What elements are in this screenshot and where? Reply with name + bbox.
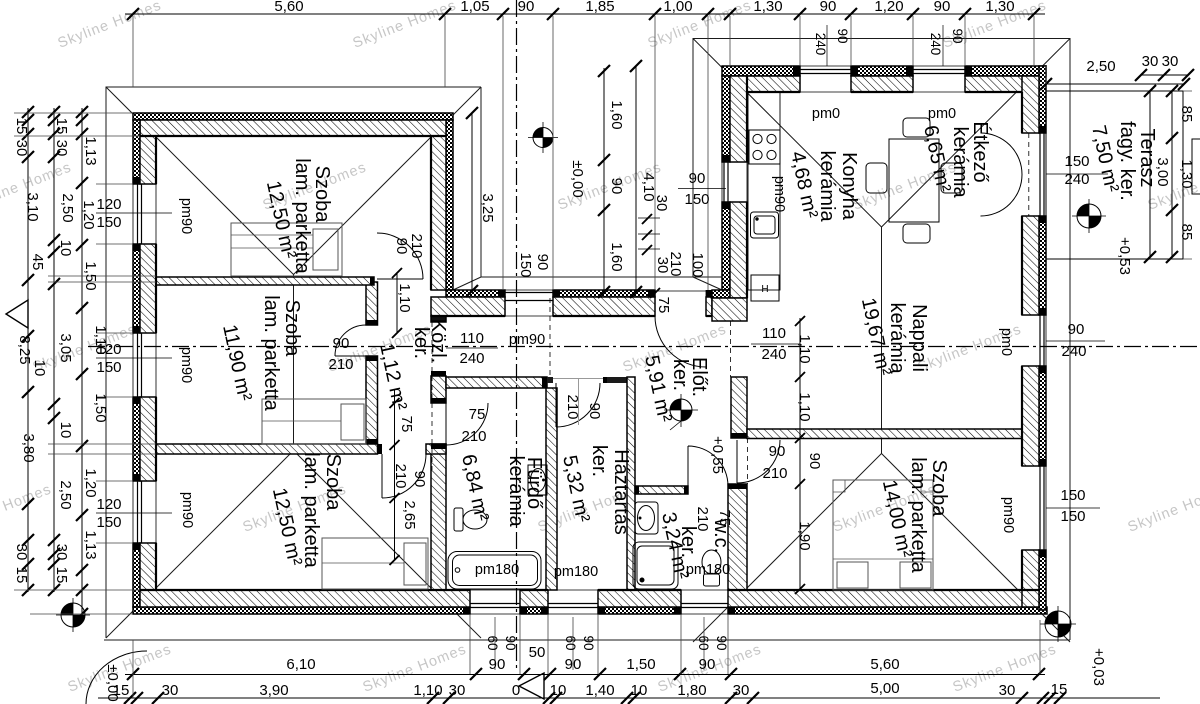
section triangle bottom	[519, 673, 544, 699]
hip right NW	[693, 39, 882, 228]
bed room1	[231, 223, 342, 276]
svg-text:1,10: 1,10	[396, 283, 413, 312]
east window pm0 Nappali	[1022, 315, 1046, 366]
opening 110 nappali jambs	[712, 321, 747, 377]
svg-text:3,25: 3,25	[479, 193, 496, 222]
top ticks	[127, 8, 1040, 20]
svg-text:Étkező: Étkező	[969, 121, 992, 182]
svg-text:1,05: 1,05	[460, 0, 489, 15]
top window pm0 #2	[913, 66, 965, 92]
svg-text:120: 120	[96, 196, 121, 213]
svg-text:110: 110	[762, 325, 786, 342]
Nappali west wall upper	[731, 377, 747, 438]
svg-text:90: 90	[699, 656, 716, 673]
left block insulation west segs	[133, 120, 140, 184]
window W1 left wall	[133, 184, 156, 244]
survey marker courtyard	[528, 122, 558, 153]
hip left NE	[294, 87, 482, 275]
svg-text:Szoba: Szoba	[928, 460, 950, 518]
svg-text:15: 15	[113, 682, 130, 699]
svg-text:150: 150	[96, 359, 121, 376]
svg-text:90: 90	[565, 656, 582, 673]
door Furdo arc	[446, 403, 488, 445]
svg-text:pm0: pm0	[928, 106, 956, 122]
corridor 110 240 pair line	[446, 347, 498, 349]
right pair lines	[1046, 174, 1108, 508]
entry wall insulation segs	[446, 290, 505, 297]
courtyard small lines	[638, 218, 660, 249]
hip right SE	[882, 454, 1071, 643]
bottom rotated pairs	[485, 635, 729, 650]
kitchen counter	[748, 92, 780, 290]
svg-text:w.c.: w.c.	[710, 518, 732, 553]
svg-text:30: 30	[653, 195, 670, 212]
svg-text:90: 90	[608, 178, 625, 195]
courtyard window right block west wall	[722, 162, 747, 202]
svg-text:Háztartás: Háztartás	[610, 449, 632, 535]
door Nappali arc	[737, 440, 780, 483]
svg-text:8,25: 8,25	[16, 335, 33, 364]
svg-text:50: 50	[529, 644, 546, 661]
right vertical dim 85 130 85	[1171, 91, 1173, 257]
svg-text:1,10: 1,10	[796, 334, 813, 363]
svg-text:15: 15	[53, 567, 70, 584]
top right 2,50 line	[1046, 83, 1184, 85]
dashed entry window jamb	[549, 298, 551, 376]
shower WC	[633, 542, 678, 589]
svg-text:30: 30	[1162, 53, 1179, 70]
svg-text:1,85: 1,85	[585, 0, 614, 15]
svg-text:pm90: pm90	[509, 332, 545, 348]
washbasin WC	[635, 502, 658, 534]
svg-text:90: 90	[835, 28, 850, 43]
Nappali west wall lower	[728, 484, 747, 590]
bottom row1 line	[125, 674, 1045, 676]
right pair labels	[1060, 153, 1089, 525]
bottom insulation segs	[133, 607, 470, 614]
entry door arc	[655, 316, 706, 367]
dining table	[889, 139, 939, 222]
svg-text:30: 30	[733, 682, 750, 699]
svg-text:210: 210	[328, 356, 353, 373]
svg-text:15: 15	[1051, 681, 1068, 698]
top window pm0 #1	[800, 66, 851, 92]
svg-text:120: 120	[96, 341, 121, 358]
svg-text:1,10: 1,10	[413, 682, 442, 699]
svg-text:30: 30	[53, 140, 70, 157]
svg-text:150: 150	[517, 252, 534, 277]
svg-text:pm180: pm180	[475, 562, 519, 578]
svg-text:1,20: 1,20	[82, 468, 99, 497]
svg-text:6,10: 6,10	[286, 656, 315, 673]
svg-text:75: 75	[398, 416, 415, 433]
top dim line	[125, 13, 1045, 15]
svg-text:15: 15	[53, 118, 70, 135]
chair top	[903, 118, 930, 137]
svg-text:90: 90	[586, 403, 603, 420]
window W2 left wall	[133, 333, 156, 397]
chair right	[941, 163, 962, 193]
top rotated window labels	[813, 28, 965, 55]
main horizontal axis	[88, 346, 1200, 348]
svg-text:+0,03: +0,03	[1090, 648, 1107, 686]
svg-text:3,10: 3,10	[24, 192, 41, 221]
svg-text:Nappali: Nappali	[908, 304, 930, 372]
elot pair leader	[670, 421, 681, 430]
corridor right wall seg top	[431, 316, 446, 322]
room1/2 divider wall	[156, 277, 374, 285]
svg-text:10: 10	[631, 682, 648, 699]
svg-text:5,60: 5,60	[274, 0, 303, 15]
svg-text:150: 150	[1060, 487, 1085, 504]
washbasin Furdo	[528, 465, 547, 495]
right block insulation east segs	[1039, 66, 1046, 133]
room2/3 divider wall	[156, 444, 378, 454]
courtyard dim 4,10	[635, 66, 637, 292]
svg-text:1,30: 1,30	[985, 0, 1014, 15]
Furdo east / Haztartas west wall	[546, 388, 557, 590]
left window pair lines	[96, 213, 172, 513]
OPENINGS	[133, 66, 1183, 614]
right block insulation top segs	[722, 66, 800, 76]
svg-text:2,50: 2,50	[59, 193, 76, 222]
svg-text:45: 45	[29, 254, 46, 271]
svg-text:90: 90	[769, 443, 786, 460]
hip left NW	[106, 87, 294, 275]
ridge left	[293, 275, 295, 451]
svg-text:90: 90	[411, 471, 428, 488]
svg-text:1,30: 1,30	[753, 0, 782, 15]
svg-text:+0,55: +0,55	[709, 436, 726, 474]
svg-text:1,80: 1,80	[677, 682, 706, 699]
door room3 arc	[382, 454, 426, 498]
svg-text:1,00: 1,00	[663, 0, 692, 15]
left block insulation top	[133, 113, 453, 120]
bathtub	[448, 552, 541, 590]
top right labels	[1086, 53, 1178, 75]
door Haztartas arc	[556, 383, 600, 427]
survey marker bottom left	[56, 598, 90, 632]
svg-text:90: 90	[950, 28, 965, 43]
svg-text:2,50: 2,50	[57, 480, 74, 509]
svg-text:1,10: 1,10	[796, 392, 813, 421]
svg-text:Terasz: Terasz	[1136, 129, 1158, 188]
nappali west dim col	[799, 318, 801, 589]
svg-text:1,13: 1,13	[82, 530, 99, 559]
ridge right	[881, 227, 883, 454]
bottom masonry segs	[140, 590, 470, 607]
svg-text:30: 30	[13, 140, 30, 157]
svg-text:90: 90	[1068, 321, 1085, 338]
chair bottom	[903, 224, 930, 243]
svg-text:90: 90	[393, 238, 410, 255]
svg-text:1,60: 1,60	[608, 100, 625, 129]
eaves right block	[693, 39, 1070, 641]
svg-text:2,65: 2,65	[401, 500, 418, 529]
left ext lines	[14, 113, 156, 614]
svg-text:90: 90	[534, 254, 551, 271]
window bottom Furdo	[470, 590, 520, 614]
svg-text:240: 240	[1061, 343, 1086, 360]
svg-text:30: 30	[999, 682, 1016, 699]
svg-text:150: 150	[684, 191, 709, 208]
svg-text:1,20: 1,20	[80, 200, 97, 229]
bottom row2 labels	[113, 680, 1068, 699]
jamb caps	[366, 320, 747, 494]
svg-text:2,50: 2,50	[1086, 58, 1115, 75]
corridor left wall seg top	[366, 282, 378, 325]
svg-text:1,50: 1,50	[626, 656, 655, 673]
eaves bottom continuous	[104, 639, 1070, 641]
dashed projection corridor	[431, 322, 433, 470]
toilet WC	[702, 550, 721, 586]
east window pm90 Szoba	[1022, 466, 1046, 550]
courtyard corner diagonal left	[453, 277, 481, 290]
svg-text:110: 110	[460, 330, 484, 347]
svg-text:pm0: pm0	[812, 106, 840, 122]
right block masonry west segs	[730, 76, 747, 162]
svg-text:75: 75	[655, 297, 672, 314]
svg-text:90: 90	[581, 635, 596, 650]
svg-text:10: 10	[550, 682, 567, 699]
top row labels	[274, 0, 1014, 15]
courtyard dim 3,25	[471, 112, 473, 291]
svg-text:ker.: ker.	[669, 359, 691, 391]
courtyard corner diagonal right	[693, 277, 722, 290]
dashed projection nappali door	[747, 438, 749, 484]
stove	[749, 130, 780, 164]
left block masonry east	[431, 136, 446, 290]
eaves left block right side	[481, 87, 722, 277]
terrace ext lines	[1046, 66, 1192, 259]
svg-text:+0,53: +0,53	[1116, 237, 1133, 275]
courtyard 90 150 pair line	[678, 188, 726, 190]
svg-text:pm90: pm90	[178, 198, 194, 234]
svg-text:90: 90	[820, 0, 837, 15]
dim line furdo door col	[394, 390, 396, 560]
top extension lines	[133, 16, 1034, 290]
main vertical axis	[516, 0, 518, 670]
svg-text:10: 10	[57, 240, 74, 257]
divider east seg	[426, 444, 446, 454]
svg-text:kerámia: kerámia	[505, 455, 527, 527]
left col2	[53, 108, 55, 592]
left block masonry west segs	[140, 136, 156, 184]
corridor left wall seg bottom	[366, 356, 378, 444]
svg-text:1,50: 1,50	[82, 261, 99, 290]
svg-text:ker.: ker.	[588, 445, 610, 477]
svg-text:240: 240	[1064, 171, 1089, 188]
bottom row1 labels	[286, 644, 899, 673]
svg-text:5,00: 5,00	[870, 680, 899, 697]
kitchen sink	[751, 212, 779, 238]
svg-text:10: 10	[57, 422, 74, 439]
svg-text:120: 120	[96, 496, 121, 513]
WC north wall	[635, 486, 688, 494]
terrace outline	[1046, 91, 1183, 259]
FIXTURES	[6, 92, 1106, 704]
eaves outline left block	[106, 87, 481, 638]
svg-text:60: 60	[485, 635, 500, 650]
courtyard dim col 1,60 90 1,60	[603, 68, 605, 292]
left col3	[81, 108, 83, 614]
svg-text:lam. parketta: lam. parketta	[260, 295, 282, 411]
svg-text:15: 15	[13, 118, 30, 135]
fridge H	[751, 275, 779, 301]
Haztartas north wall (thin)	[603, 377, 627, 383]
svg-text:150: 150	[1060, 508, 1085, 525]
left col1	[27, 108, 29, 592]
ROOF	[104, 39, 1070, 643]
svg-text:5,60: 5,60	[870, 656, 899, 673]
svg-text:210: 210	[667, 251, 684, 276]
svg-text:150: 150	[96, 214, 121, 231]
entry wall masonry segs	[431, 297, 505, 316]
window W3 left wall	[133, 481, 156, 543]
survey marker Elot	[664, 394, 698, 427]
top window sublines	[827, 25, 943, 66]
svg-text:30: 30	[53, 544, 70, 561]
hip right SW	[693, 454, 882, 643]
svg-text:15: 15	[13, 567, 30, 584]
top right 30 30 line	[1141, 74, 1188, 76]
svg-text:60: 60	[563, 635, 578, 650]
svg-text:210: 210	[461, 428, 486, 445]
survey marker terrace	[1072, 199, 1106, 233]
svg-text:30: 30	[13, 544, 30, 561]
right vertical dim 3,00	[1149, 91, 1151, 257]
svg-text:1,30: 1,30	[1178, 159, 1195, 188]
hip left SE	[294, 451, 482, 639]
WALLS	[133, 66, 1047, 614]
big arc bottom-left corner	[86, 651, 147, 704]
toilet Furdo	[454, 508, 487, 531]
svg-text:1,13: 1,13	[82, 136, 99, 165]
right block masonry east segs	[1022, 76, 1039, 133]
bottom ext lines	[133, 614, 1040, 698]
dashed french door	[1028, 133, 1030, 216]
svg-text:75: 75	[469, 406, 486, 423]
svg-text:30: 30	[162, 682, 179, 699]
right window bracket	[1192, 139, 1200, 194]
svg-text:ker.: ker.	[410, 327, 432, 359]
double bed Szoba right	[833, 480, 933, 590]
left block masonry top	[140, 120, 446, 136]
corridor right wall seg mid	[431, 376, 446, 403]
door room2 arc	[335, 325, 366, 356]
door WC arc	[688, 446, 728, 486]
right block insulation west segs	[722, 76, 730, 162]
svg-text:Szoba: Szoba	[322, 454, 344, 512]
svg-text:240: 240	[813, 33, 828, 56]
svg-text:210: 210	[408, 233, 425, 258]
svg-text:90: 90	[489, 656, 506, 673]
nappali 110 240 pair line	[751, 343, 800, 345]
bed room2	[262, 399, 366, 444]
svg-text:90: 90	[934, 0, 951, 15]
svg-text:±0,00: ±0,00	[569, 160, 586, 197]
svg-text:0: 0	[512, 682, 520, 699]
window jamb blocks	[133, 66, 1046, 614]
entry wall window	[505, 290, 553, 316]
Furdo north wall	[446, 377, 547, 388]
section triangle left	[6, 300, 28, 328]
svg-text:H: H	[761, 284, 768, 295]
svg-text:240: 240	[761, 346, 786, 363]
Szoba3/Nappali divider wall	[747, 429, 1022, 439]
Haztartas east wall	[627, 377, 635, 590]
survey marker bottom right	[1040, 606, 1076, 642]
left block insulation east	[446, 120, 453, 290]
svg-text:pm90: pm90	[179, 492, 195, 528]
svg-text:Konyha: Konyha	[838, 152, 860, 221]
bottom row2 line	[98, 697, 1160, 699]
dashed projection nappali opening	[730, 321, 732, 377]
bed room3	[322, 538, 428, 589]
inner face thick lines	[140, 76, 1040, 590]
svg-text:60: 60	[696, 635, 711, 650]
svg-text:90: 90	[333, 335, 350, 352]
svg-text:85: 85	[1178, 106, 1195, 123]
svg-text:210: 210	[564, 394, 581, 419]
hip right NE	[882, 39, 1071, 228]
svg-text:Szoba: Szoba	[281, 300, 303, 358]
french door east wall	[1022, 133, 1046, 216]
svg-text:1,60: 1,60	[608, 242, 625, 271]
french door arcs	[981, 133, 1023, 216]
svg-text:pm180: pm180	[554, 564, 598, 580]
corridor area labels	[328, 233, 823, 550]
window bottom WC	[681, 590, 728, 614]
svg-text:100: 100	[689, 252, 706, 277]
left col labels	[13, 118, 121, 702]
svg-text:3,80: 3,80	[20, 433, 37, 462]
svg-text:210: 210	[762, 465, 787, 482]
svg-text:3,05: 3,05	[57, 333, 74, 362]
courtyard labels	[479, 100, 710, 313]
svg-text:30: 30	[449, 682, 466, 699]
chair left	[866, 163, 887, 193]
svg-text:150: 150	[1064, 153, 1089, 170]
svg-text:1,40: 1,40	[585, 682, 614, 699]
door room1 arc	[377, 233, 423, 279]
svg-text:90: 90	[689, 170, 706, 187]
svg-text:210: 210	[392, 463, 409, 488]
svg-text:240: 240	[928, 33, 943, 56]
svg-text:240: 240	[459, 350, 484, 367]
svg-text:1,50: 1,50	[92, 393, 109, 422]
svg-text:pm90: pm90	[178, 347, 194, 383]
window bottom Haztartas	[548, 590, 598, 614]
Furdo west wall	[431, 444, 446, 590]
left window pairs	[96, 196, 121, 531]
opening 110 corridor jambs	[431, 322, 446, 444]
svg-text:pm90: pm90	[771, 176, 787, 212]
svg-text:3,90: 3,90	[259, 682, 288, 699]
room labels	[218, 121, 1158, 581]
svg-text:pm0: pm0	[998, 328, 1014, 356]
svg-text:85: 85	[1178, 224, 1195, 241]
dim 1,10 below room1 door	[396, 272, 398, 333]
hip left SW	[106, 451, 294, 639]
pm labels	[178, 106, 1016, 580]
svg-text:90: 90	[503, 635, 518, 650]
svg-text:30: 30	[1142, 53, 1159, 70]
svg-text:90: 90	[518, 0, 535, 15]
entry door opening	[655, 290, 706, 316]
svg-text:90: 90	[714, 635, 729, 650]
svg-text:Szoba: Szoba	[311, 166, 333, 224]
